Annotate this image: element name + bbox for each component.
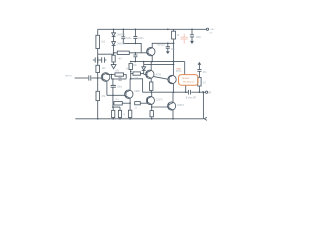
resistor R16 <box>150 82 153 92</box>
node R5 bottom <box>173 43 175 45</box>
wire lower base net <box>113 102 114 104</box>
svg-text:C2073: C2073 <box>156 100 163 102</box>
wire node B to E chain <box>131 79 143 92</box>
node Q5 emitter <box>151 106 153 108</box>
transistor Q1 input <box>101 73 110 82</box>
node diode col base <box>113 52 115 54</box>
node cap col top <box>112 95 114 97</box>
capacitor C11 <box>190 29 194 41</box>
resistor R1 <box>96 35 100 48</box>
svg-text:1N4148: 1N4148 <box>117 35 126 37</box>
wire Q5 collector <box>151 92 153 96</box>
wire mid rail corner into box <box>184 62 186 75</box>
svg-text:C2073: C2073 <box>177 105 184 107</box>
capacitor C2 <box>98 57 107 63</box>
wire Q2 base net <box>114 52 148 54</box>
terminal V+ <box>206 28 208 30</box>
wire output right <box>191 91 202 93</box>
wire bias second rail <box>144 63 174 65</box>
node top rail D column <box>113 29 115 31</box>
resistor R3 <box>112 55 115 62</box>
svg-text:100u: 100u <box>138 38 144 40</box>
resistor R8 <box>115 73 124 76</box>
wire D1-D2 <box>113 37 115 42</box>
output arrow terminal <box>203 91 208 94</box>
wire input stub <box>75 77 89 79</box>
wire mid rail <box>131 61 185 63</box>
node output dots <box>173 91 175 93</box>
wire R10 to Q3 emitter node <box>122 102 130 104</box>
svg-text:1k: 1k <box>123 114 126 116</box>
node A dot <box>111 74 113 76</box>
resistor R14 <box>150 111 153 119</box>
wire Q7 base net <box>152 106 169 108</box>
wire R13 to Q5 base <box>140 102 147 104</box>
svg-text:100n: 100n <box>196 37 202 39</box>
transistor Q3 <box>125 90 133 98</box>
svg-text:0.5: 0.5 <box>203 82 207 84</box>
wire Q3 collector <box>129 79 131 90</box>
wire Q7 emitter <box>172 110 174 119</box>
svg-text:100n: 100n <box>126 38 132 40</box>
svg-text:2SC5200 x2: 2SC5200 x2 <box>183 81 195 83</box>
wire parallel R feed <box>113 103 120 107</box>
node top rail bypass <box>191 29 193 31</box>
node base net C6 <box>135 52 137 54</box>
resistor R9 <box>128 110 131 119</box>
svg-text:BD139: BD139 <box>157 45 165 47</box>
capacitor C12 <box>197 70 201 78</box>
wire Q2 emitter <box>151 56 153 62</box>
svg-text:100u: 100u <box>117 86 123 88</box>
wire D base net <box>107 94 126 96</box>
wire Q4 emitter <box>150 78 152 82</box>
svg-text:47u: 47u <box>203 72 208 74</box>
resistor R12 <box>118 107 121 119</box>
node R6 bottom <box>130 71 132 73</box>
node C5 bottom <box>135 43 137 45</box>
wire Q5 emitter <box>151 105 153 111</box>
svg-text:8R: 8R <box>208 92 211 94</box>
wire left column lower <box>97 73 99 119</box>
svg-text:22: 22 <box>135 107 138 109</box>
wire Q6 base diagonal <box>154 77 169 80</box>
svg-text:1k: 1k <box>177 35 180 37</box>
ground arrow R3 <box>111 62 116 69</box>
wire bottom rail <box>75 118 203 120</box>
svg-text:+35V: +35V <box>209 29 215 31</box>
node Q5 collector <box>151 91 153 93</box>
node top rail C5 <box>135 29 137 31</box>
label texts <box>65 29 215 116</box>
wire Q7 collector <box>172 92 174 102</box>
wire output node rail <box>143 91 189 93</box>
node collector cap-gnd <box>167 43 169 45</box>
power arrow V+ right <box>198 62 202 69</box>
svg-text:8 ohm SP: 8 ohm SP <box>186 98 197 100</box>
svg-text:1k0: 1k0 <box>102 67 107 70</box>
wire bias stub down <box>143 62 145 65</box>
svg-text:10k: 10k <box>115 70 120 72</box>
wire Q1 collector node A <box>107 73 115 75</box>
node top rail C4 <box>123 29 125 31</box>
transistor Q4 <box>146 70 154 78</box>
svg-text:47k: 47k <box>101 96 106 98</box>
capacitor C9 electrolytic <box>111 79 116 103</box>
resistor R15 <box>198 77 201 92</box>
node mid rail dots <box>130 61 132 63</box>
svg-text:BD: BD <box>133 65 137 67</box>
transistor Q5 <box>146 96 154 104</box>
diode D2 <box>112 42 116 46</box>
op-amp highlight box U1 output pair <box>179 75 198 86</box>
svg-text:4k7: 4k7 <box>115 99 119 101</box>
wire speaker drop <box>202 92 204 119</box>
resistor R13 <box>135 102 141 105</box>
svg-text:C945: C945 <box>134 91 140 93</box>
wire stub R1col to diode column <box>98 53 114 55</box>
resistor R5 <box>172 29 176 43</box>
transistor Q7 <box>168 102 176 110</box>
wire Q4 base stub <box>144 73 147 75</box>
capacitor C8 <box>119 77 126 81</box>
node C9 col y79 <box>112 78 114 80</box>
wire Q1 emitter column <box>106 81 108 95</box>
resistor R10 <box>114 102 122 105</box>
label U1 box text <box>176 68 195 84</box>
wire D2 down <box>113 46 115 56</box>
svg-text:INPUT: INPUT <box>65 75 72 77</box>
node Q3 emitter y103 <box>129 102 131 104</box>
svg-text:DC: DC <box>209 32 213 34</box>
wire Q2 collector <box>152 43 173 47</box>
svg-text:10n: 10n <box>171 49 176 51</box>
node top rail small <box>167 29 169 31</box>
wire Q4 collector <box>150 62 152 71</box>
node bias stub <box>143 61 145 63</box>
capacitor C5 <box>133 29 137 43</box>
wire left column <box>97 29 99 35</box>
wire R8 right to node B <box>124 75 127 79</box>
node bottom rail dots <box>97 118 99 120</box>
capacitor C3 input <box>89 75 102 80</box>
svg-text:B772: B772 <box>176 71 182 73</box>
svg-text:2k2: 2k2 <box>101 42 105 44</box>
capacitor C10 output <box>189 90 191 95</box>
ground arrow C7 <box>166 51 170 54</box>
svg-text:1N4148: 1N4148 <box>117 44 126 46</box>
resistor R11 <box>112 107 115 119</box>
rail end arrow <box>204 117 207 120</box>
node parallel feed <box>112 106 114 108</box>
resistor R4 <box>117 51 129 54</box>
svg-text:A733: A733 <box>156 73 162 76</box>
wire Q3 emitter <box>129 98 131 110</box>
svg-text:TIP3055: TIP3055 <box>182 78 191 80</box>
wire RC lower path <box>112 75 119 80</box>
resistor R2 <box>96 65 100 72</box>
wire power box emitter stub <box>185 85 187 92</box>
capacitor C13 highlighted pink <box>181 34 188 44</box>
capacitor C6 <box>133 53 137 62</box>
transistor Q2 <box>147 47 155 55</box>
diode D1 <box>112 29 116 36</box>
wire Q6 emitter <box>172 84 174 92</box>
svg-text:4k7: 4k7 <box>118 58 122 60</box>
wire Q6 collector <box>172 62 174 76</box>
node bias second rail <box>173 64 175 66</box>
diode D3 <box>142 64 146 74</box>
svg-text:PAIR: PAIR <box>176 68 181 71</box>
transistor Q6 <box>168 75 176 84</box>
wire C4 bottom to base corner <box>123 43 141 52</box>
node Q3 collector cross <box>130 78 132 80</box>
node input junction <box>97 77 99 79</box>
ground arrow C11 <box>190 41 194 44</box>
resistor R6 <box>129 64 132 79</box>
resistor R7 <box>131 72 144 75</box>
resistor R17 feedback <box>96 91 100 100</box>
wire top rail V+ <box>98 28 207 30</box>
capacitor C1 <box>93 57 98 63</box>
wire VAS column <box>173 43 175 61</box>
wire R1 bottom <box>97 49 99 67</box>
capacitor C4 <box>121 29 125 43</box>
capacitor C7 <box>166 43 170 51</box>
